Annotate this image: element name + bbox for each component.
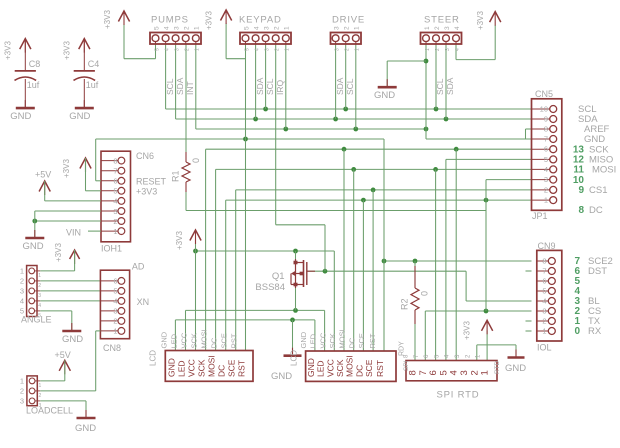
svg-text:SCE: SCE (357, 333, 366, 348)
svg-text:+5V: +5V (55, 350, 71, 360)
svg-text:6: 6 (542, 277, 546, 286)
svg-text:DC: DC (354, 365, 364, 377)
svg-text:8: 8 (113, 156, 117, 165)
svg-text:2: 2 (274, 26, 281, 30)
svg-text:RST: RST (368, 333, 377, 348)
svg-text:5: 5 (154, 48, 160, 51)
svg-text:+3V3: +3V3 (463, 321, 472, 340)
svg-text:DC: DC (347, 337, 356, 348)
svg-text:9: 9 (544, 115, 548, 124)
svg-text:5: 5 (113, 187, 117, 196)
svg-text:1uf: 1uf (86, 80, 99, 90)
svg-text:SCK: SCK (197, 359, 207, 377)
svg-text:1: 1 (355, 48, 361, 51)
svg-text:MOSI: MOSI (207, 355, 217, 377)
svg-text:SCL: SCL (435, 78, 445, 95)
svg-text:+3V3: +3V3 (476, 11, 485, 30)
svg-text:LCD: LCD (290, 350, 299, 366)
svg-text:GND: GND (166, 358, 176, 377)
svg-text:RTD: RTD (494, 360, 501, 374)
svg-text:6: 6 (544, 145, 548, 154)
svg-text:8: 8 (578, 205, 584, 216)
svg-text:RESET: RESET (136, 177, 167, 187)
svg-text:4: 4 (254, 48, 260, 51)
svg-text:DC: DC (217, 365, 227, 377)
svg-text:3: 3 (544, 175, 548, 184)
svg-text:LED: LED (170, 333, 179, 348)
svg-text:SCK: SCK (335, 359, 345, 377)
svg-text:IOH1: IOH1 (101, 244, 122, 254)
svg-text:GND: GND (374, 90, 395, 101)
svg-text:9: 9 (578, 185, 584, 196)
svg-text:2: 2 (434, 26, 441, 30)
svg-text:0: 0 (574, 326, 580, 337)
svg-text:SPI RTD: SPI RTD (437, 390, 480, 401)
svg-text:5: 5 (544, 155, 548, 164)
svg-text:DC: DC (210, 337, 219, 348)
svg-text:DC: DC (589, 205, 603, 216)
svg-text:6: 6 (113, 177, 117, 186)
svg-text:+3V3: +3V3 (4, 41, 13, 60)
svg-text:4: 4 (163, 26, 170, 30)
svg-text:VCC: VCC (325, 359, 335, 377)
svg-text:SDA: SDA (445, 77, 455, 95)
svg-text:GND: GND (10, 111, 31, 122)
svg-text:RST: RST (237, 360, 247, 377)
svg-text:IRQ: IRQ (275, 80, 285, 96)
svg-text:7: 7 (113, 167, 117, 176)
svg-text:1: 1 (113, 327, 117, 336)
svg-text:5: 5 (542, 287, 546, 296)
svg-text:GND: GND (306, 358, 316, 377)
svg-text:1: 1 (194, 26, 201, 30)
svg-text:+3V3: +3V3 (62, 159, 71, 178)
svg-text:+3V3: +3V3 (63, 41, 72, 60)
svg-text:SCE: SCE (364, 359, 374, 377)
svg-text:+5V: +5V (35, 170, 51, 180)
svg-text:SCE: SCE (220, 333, 229, 348)
svg-text:4: 4 (164, 48, 170, 51)
svg-text:8: 8 (542, 257, 546, 266)
svg-text:1: 1 (354, 26, 361, 30)
svg-text:1: 1 (480, 370, 491, 375)
svg-text:7: 7 (544, 135, 548, 144)
svg-text:KEYPAD: KEYPAD (239, 15, 282, 26)
svg-text:2: 2 (275, 48, 281, 51)
svg-text:0: 0 (420, 291, 430, 296)
svg-text:LED: LED (316, 360, 326, 377)
svg-text:MOSI: MOSI (200, 329, 209, 348)
svg-text:3: 3 (444, 26, 451, 30)
svg-text:4: 4 (542, 297, 546, 306)
svg-text:CN6: CN6 (136, 151, 154, 161)
svg-text:4: 4 (20, 297, 24, 306)
svg-text:2: 2 (542, 317, 546, 326)
svg-text:2: 2 (184, 26, 191, 30)
svg-text:3: 3 (542, 307, 546, 316)
svg-text:1: 1 (38, 273, 41, 279)
svg-text:SCK: SCK (190, 333, 199, 348)
svg-text:R2: R2 (400, 298, 410, 310)
svg-text:DST: DST (588, 266, 607, 277)
svg-text:1: 1 (284, 26, 291, 30)
svg-text:1: 1 (285, 48, 291, 51)
svg-text:3: 3 (20, 287, 24, 296)
svg-text:GND: GND (69, 111, 90, 122)
svg-text:3: 3 (445, 48, 451, 51)
svg-text:MOSI: MOSI (592, 165, 616, 176)
svg-text:2: 2 (344, 26, 351, 30)
svg-text:GND: GND (299, 331, 308, 348)
svg-text:3: 3 (113, 207, 117, 216)
svg-text:4: 4 (454, 26, 461, 30)
svg-text:VIN: VIN (66, 228, 81, 238)
svg-text:2: 2 (435, 48, 441, 51)
svg-text:GND: GND (505, 363, 526, 374)
svg-text:GND: GND (62, 334, 83, 345)
svg-text:3: 3 (334, 48, 340, 51)
svg-text:C4: C4 (88, 59, 100, 69)
svg-text:1: 1 (424, 26, 431, 30)
svg-text:3: 3 (173, 26, 180, 30)
svg-text:R1: R1 (171, 170, 181, 182)
svg-text:SCE: SCE (227, 359, 237, 377)
svg-text:RDY: RDY (399, 341, 406, 356)
svg-text:STEER: STEER (424, 15, 460, 26)
svg-text:3: 3 (263, 26, 270, 30)
svg-text:4: 4 (544, 165, 548, 174)
svg-text:1: 1 (20, 267, 24, 276)
svg-text:LED: LED (177, 360, 187, 377)
svg-text:1: 1 (542, 327, 546, 336)
svg-text:MOSI: MOSI (345, 355, 355, 377)
svg-text:10: 10 (540, 105, 548, 114)
svg-text:2: 2 (113, 217, 117, 226)
svg-text:3: 3 (38, 293, 41, 299)
svg-text:Q1: Q1 (272, 271, 285, 282)
svg-text:SPI: SPI (403, 360, 410, 371)
svg-text:CN8: CN8 (103, 343, 121, 353)
svg-text:5: 5 (153, 26, 160, 30)
svg-text:PUMPS: PUMPS (151, 15, 189, 26)
svg-text:2: 2 (39, 393, 42, 399)
svg-text:1: 1 (544, 196, 548, 205)
svg-text:2: 2 (20, 277, 24, 286)
svg-text:+3V3: +3V3 (205, 11, 214, 30)
svg-text:7: 7 (542, 267, 546, 276)
svg-text:RST: RST (230, 333, 239, 348)
svg-text:RST: RST (375, 360, 385, 377)
svg-text:6: 6 (113, 277, 117, 286)
svg-text:CN5: CN5 (535, 89, 553, 99)
svg-text:1: 1 (195, 48, 201, 51)
svg-text:4: 4 (38, 303, 41, 309)
svg-text:5: 5 (243, 26, 250, 30)
svg-text:+3V3: +3V3 (175, 231, 184, 250)
svg-text:ANGLE: ANGLE (21, 315, 52, 325)
svg-text:GND: GND (23, 241, 44, 252)
svg-text:5: 5 (244, 48, 250, 51)
svg-text:VCC: VCC (318, 332, 327, 348)
svg-text:SDA: SDA (175, 77, 185, 95)
svg-text:3: 3 (264, 48, 270, 51)
svg-text:LED: LED (309, 333, 318, 348)
svg-text:5: 5 (113, 287, 117, 296)
svg-text:INT: INT (185, 81, 195, 95)
svg-text:1: 1 (425, 48, 431, 51)
svg-text:CS1: CS1 (589, 185, 607, 196)
svg-text:3: 3 (113, 307, 117, 316)
svg-text:C8: C8 (29, 59, 41, 69)
svg-text:VCC: VCC (180, 332, 189, 348)
svg-text:2: 2 (20, 387, 24, 396)
svg-text:8: 8 (544, 125, 548, 134)
svg-text:CN9: CN9 (538, 241, 556, 251)
svg-text:LOADCELL: LOADCELL (26, 406, 73, 416)
svg-text:+3V3: +3V3 (136, 187, 157, 197)
svg-text:XN: XN (137, 297, 150, 307)
svg-text:MOSI: MOSI (338, 329, 347, 348)
svg-text:2: 2 (38, 283, 41, 289)
svg-text:4: 4 (113, 297, 117, 306)
svg-text:3: 3 (333, 26, 340, 30)
svg-text:4: 4 (113, 197, 117, 206)
svg-text:GND: GND (271, 371, 292, 382)
svg-text:SCL: SCL (165, 78, 175, 95)
svg-text:SCL: SCL (265, 78, 275, 95)
svg-text:+3V3: +3V3 (103, 10, 112, 29)
svg-text:1uf: 1uf (27, 80, 40, 90)
svg-text:AD: AD (132, 262, 145, 272)
svg-text:IOL: IOL (537, 343, 552, 353)
svg-text:VCC: VCC (187, 359, 197, 377)
svg-text:GND: GND (75, 423, 96, 434)
svg-text:SCK: SCK (328, 333, 337, 348)
svg-text:LCD: LCD (149, 350, 158, 366)
svg-text:1: 1 (20, 377, 24, 386)
svg-text:2: 2 (113, 317, 117, 326)
svg-text:DRIVE: DRIVE (332, 15, 365, 26)
svg-text:0: 0 (191, 158, 201, 163)
svg-text:SCL: SCL (345, 78, 355, 95)
svg-text:1: 1 (113, 227, 117, 236)
svg-text:2: 2 (185, 48, 191, 51)
svg-text:GND: GND (159, 331, 168, 348)
svg-text:2: 2 (544, 185, 548, 194)
svg-text:+3V3: +3V3 (54, 243, 63, 262)
svg-text:4: 4 (455, 48, 461, 51)
svg-text:2: 2 (345, 48, 351, 51)
svg-text:3: 3 (174, 48, 180, 51)
svg-text:RX: RX (588, 326, 602, 337)
svg-text:3: 3 (20, 397, 24, 406)
svg-text:1: 1 (39, 383, 42, 389)
svg-text:SDA: SDA (335, 77, 345, 95)
svg-text:4: 4 (253, 26, 260, 30)
svg-text:SDA: SDA (255, 77, 265, 95)
svg-text:BSS84: BSS84 (255, 282, 285, 293)
svg-text:JP1: JP1 (532, 211, 548, 221)
